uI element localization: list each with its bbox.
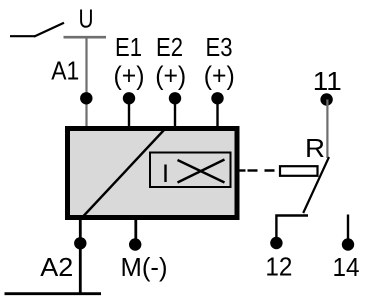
svg-text:M(-): M(-) xyxy=(121,252,168,282)
terminal dot A1 xyxy=(80,92,92,104)
terminal dot 11 xyxy=(320,93,332,105)
wire 11 to pivot xyxy=(326,100,328,159)
svg-text:E3: E3 xyxy=(206,32,233,62)
wire E3 xyxy=(216,98,218,128)
wire M(-) xyxy=(134,218,137,241)
current symbol I xyxy=(164,165,166,183)
stub from body to dashed link xyxy=(239,169,246,171)
terminal dot 12 xyxy=(270,237,282,249)
contact blade (changeover) xyxy=(303,157,329,213)
diagonal (coil/converter divider) xyxy=(84,130,165,216)
wire E1 xyxy=(128,98,130,128)
wire A1 (U to device) xyxy=(85,37,87,127)
terminal dot E2 xyxy=(169,92,181,104)
terminal dot E3 xyxy=(211,92,223,104)
dashed mechanical link xyxy=(248,169,280,171)
svg-text:E2: E2 xyxy=(156,32,183,62)
ground bus xyxy=(5,292,102,295)
svg-text:(+): (+) xyxy=(204,61,235,91)
terminal dot 14 xyxy=(342,238,354,250)
terminal dot A2 xyxy=(74,237,86,249)
resistor R xyxy=(280,166,318,176)
svg-text:R: R xyxy=(305,133,325,163)
svg-text:11: 11 xyxy=(313,66,342,96)
wire 14 stub xyxy=(347,215,349,241)
svg-text:A1: A1 xyxy=(51,56,79,86)
switch S (supply disconnect) xyxy=(10,23,64,37)
svg-text:14: 14 xyxy=(333,252,360,282)
terminal dot E1 xyxy=(123,92,135,104)
node U terminal bar xyxy=(64,36,107,39)
svg-text:(+): (+) xyxy=(114,61,145,91)
inner function block (I with X) xyxy=(150,153,231,188)
svg-text:(+): (+) xyxy=(155,61,186,91)
wire E2 xyxy=(174,98,176,128)
svg-text:E1: E1 xyxy=(115,32,142,62)
X cross xyxy=(178,160,225,183)
relay body U1 xyxy=(68,129,238,218)
svg-text:A2: A2 xyxy=(40,252,73,282)
svg-text:12: 12 xyxy=(265,252,292,282)
wire A2 xyxy=(79,218,82,293)
wire to 12 xyxy=(276,216,308,244)
svg-text:U: U xyxy=(79,4,94,34)
terminal dot M xyxy=(129,238,141,250)
